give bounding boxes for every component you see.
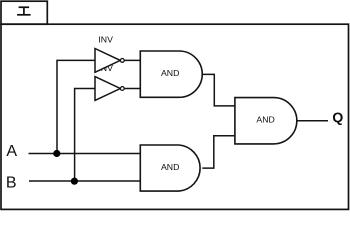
junction on net A	[53, 150, 60, 157]
svg-text:AND: AND	[161, 162, 179, 172]
svg-text:B: B	[6, 175, 17, 192]
and-gate U5	[235, 98, 297, 144]
wire AND2 output to AND3	[202, 136, 235, 168]
svg-text:INV: INV	[98, 35, 113, 45]
junction on net B	[71, 178, 78, 185]
wire INV2 output to AND1	[124, 88, 140, 90]
svg-text:AND: AND	[256, 115, 274, 125]
wire AND1 output to AND3	[202, 74, 235, 106]
svg-text:A: A	[6, 143, 17, 160]
and-gate U3	[140, 51, 202, 97]
inverter U1	[95, 49, 124, 73]
svg-text:AND: AND	[161, 68, 179, 78]
and-gate U4	[140, 145, 200, 191]
inverter U2	[95, 77, 124, 101]
wire A branch to INV1	[57, 60, 95, 153]
svg-text:Q: Q	[332, 109, 343, 125]
wire net B horizontal	[29, 180, 140, 182]
wire INV1 output to AND1	[124, 59, 140, 61]
wire B branch to INV2	[75, 89, 95, 182]
wire AND3 output to Q	[297, 120, 328, 122]
wire net A horizontal	[29, 153, 141, 155]
